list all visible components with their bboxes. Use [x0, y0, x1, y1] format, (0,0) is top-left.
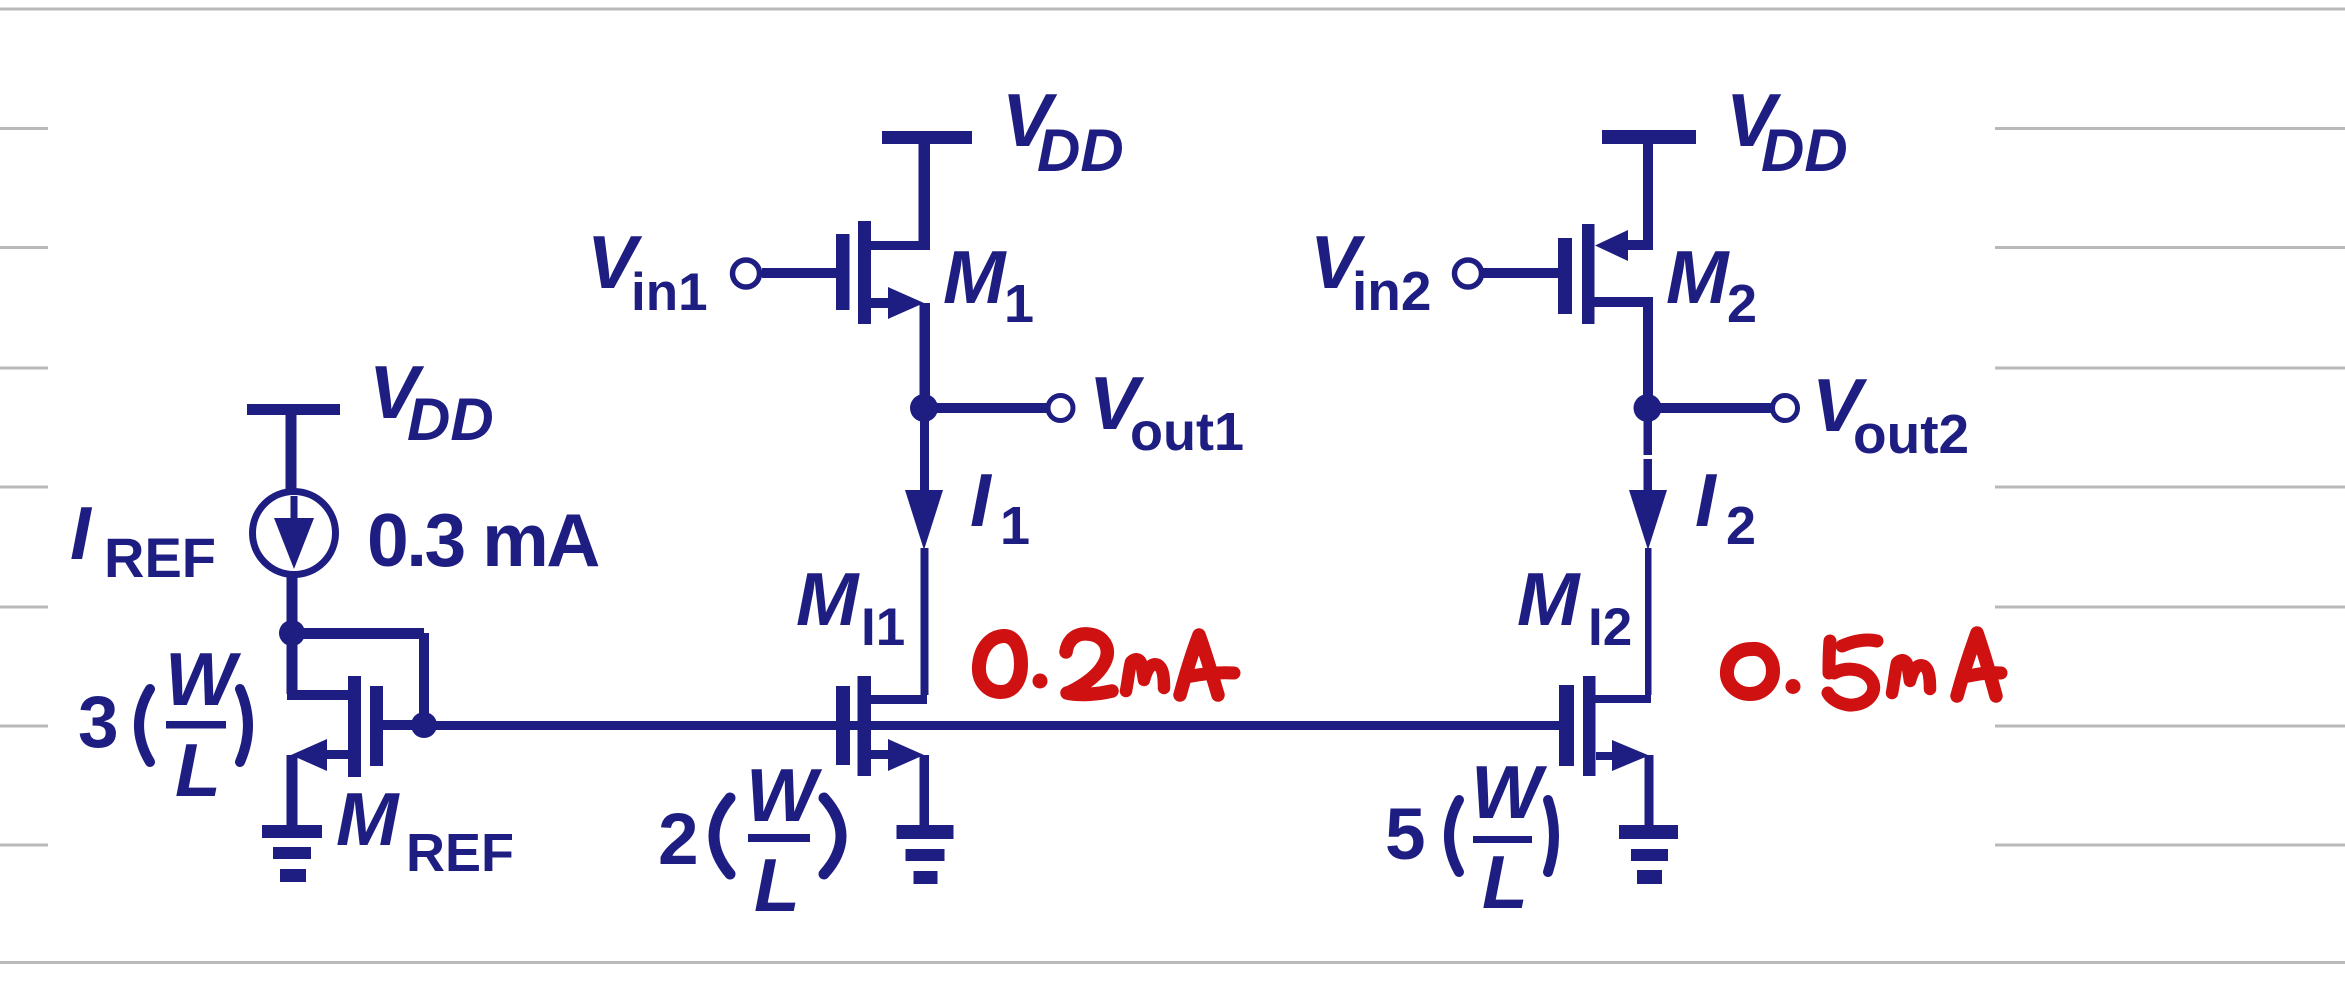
svg-text:2: 2: [1726, 496, 1756, 556]
svg-text:out2: out2: [1853, 403, 1969, 465]
svg-text:3: 3: [78, 682, 119, 763]
svg-text:L: L: [754, 843, 800, 927]
svg-text:I2: I2: [1588, 598, 1632, 657]
svg-text:in2: in2: [1352, 260, 1431, 322]
svg-text:REF: REF: [104, 526, 216, 589]
svg-text:M: M: [1666, 235, 1730, 319]
svg-text:I1: I1: [861, 598, 905, 657]
svg-text:I: I: [970, 458, 993, 542]
svg-text:1: 1: [1000, 496, 1030, 556]
svg-text:M: M: [1517, 557, 1581, 641]
svg-text:in1: in1: [631, 263, 708, 322]
svg-text:1: 1: [1004, 274, 1034, 334]
svg-text:L: L: [1482, 840, 1528, 924]
svg-text:I: I: [70, 491, 93, 575]
svg-text:5: 5: [1385, 794, 1426, 875]
svg-text:W: W: [746, 753, 823, 837]
svg-text:0.3 mA: 0.3 mA: [367, 498, 599, 582]
svg-text:M: M: [943, 235, 1007, 319]
svg-text:DD: DD: [1761, 117, 1848, 184]
svg-text:W: W: [165, 637, 242, 721]
svg-text:M: M: [336, 777, 400, 861]
svg-text:M: M: [796, 557, 860, 641]
svg-text:W: W: [1471, 750, 1548, 834]
svg-text:2: 2: [1727, 274, 1757, 334]
svg-text:DD: DD: [1037, 117, 1124, 184]
svg-text:2: 2: [658, 799, 699, 880]
svg-text:L: L: [175, 728, 221, 812]
svg-text:I: I: [1695, 458, 1718, 542]
svg-text:DD: DD: [407, 386, 494, 453]
svg-text:REF: REF: [406, 823, 514, 883]
svg-text:out1: out1: [1130, 402, 1244, 462]
